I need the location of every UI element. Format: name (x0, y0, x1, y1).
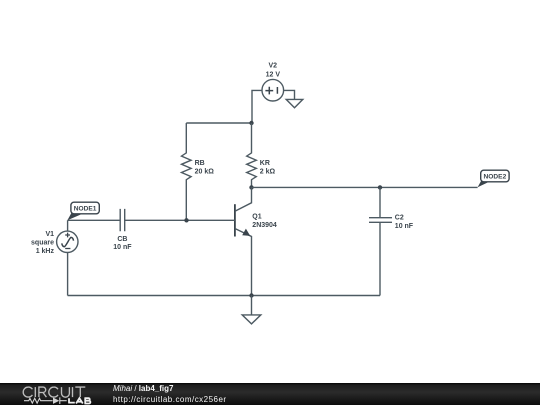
wire collector node to NODE2 (252, 186, 478, 188)
svg-text:http://circuitlab.com/cx256er: http://circuitlab.com/cx256er (113, 395, 227, 404)
wire V2 right lead to ground (284, 90, 295, 99)
svg-text:Q1: Q1 (252, 213, 261, 220)
svg-text:RB: RB (195, 160, 205, 167)
svg-text:V1: V1 (45, 231, 54, 238)
svg-text:V2: V2 (269, 63, 278, 70)
node junction emitter / ground (249, 293, 253, 297)
wire base (68, 219, 235, 221)
svg-text:NODE1: NODE1 (74, 206, 97, 213)
logo resistor-diode line + LAB (24, 397, 67, 404)
transistor Q1 2N3904 (235, 187, 277, 295)
wire bottom rail (68, 295, 380, 297)
svg-text:10 nF: 10 nF (113, 244, 132, 251)
ground (emitter) (242, 296, 261, 324)
svg-text:1 kHz: 1 kHz (36, 248, 55, 255)
node junction base / RB bottom (184, 218, 188, 222)
resistor KR 2k (247, 123, 276, 187)
svg-text:20 kΩ: 20 kΩ (195, 168, 215, 175)
svg-text:square: square (31, 240, 54, 247)
node flag NODE1 (67, 202, 99, 220)
node junction top rail (249, 121, 253, 125)
node junction C2 top (378, 185, 382, 189)
node flag NODE2 (478, 170, 510, 187)
svg-text:Mihai / lab4_fig7: Mihai / lab4_fig7 (113, 384, 174, 393)
node junction collector (249, 185, 253, 189)
capacitor C2 10nF (369, 187, 414, 295)
svg-text:2N3904: 2N3904 (252, 222, 277, 229)
svg-text:CB: CB (117, 236, 127, 243)
source V1 square 1kHz (31, 231, 78, 255)
wire V1 top lead (67, 220, 69, 231)
svg-text:KR: KR (260, 160, 270, 167)
capacitor CB 10nF (113, 209, 132, 251)
wire V1 bottom to rail (67, 253, 69, 296)
svg-text:12 V: 12 V (266, 71, 281, 78)
svg-text:10 nF: 10 nF (395, 223, 414, 230)
svg-text:NODE2: NODE2 (484, 174, 507, 181)
wire top rail (186, 122, 251, 124)
ground (V2) (286, 99, 303, 107)
footer bar (0, 383, 540, 405)
svg-text:C2: C2 (395, 214, 404, 221)
voltage source V2 (262, 63, 284, 101)
wire V2 left lead to top rail (252, 90, 262, 123)
svg-text:2 kΩ: 2 kΩ (260, 168, 276, 175)
CircuitLab logo: CIRCUIT stroked letters (23, 387, 85, 397)
resistor RB 20k (182, 123, 215, 220)
